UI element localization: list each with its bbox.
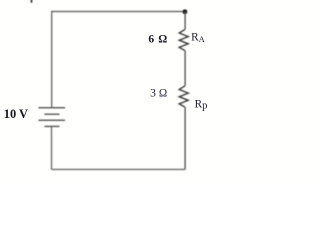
svg-text:10 V: 10 V [4,107,28,121]
wire: bottom horizontal [52,168,186,170]
wire: left vertical (top corner down to battery +) [51,12,53,108]
wire: RA to RP [184,51,186,86]
node: top junction [183,9,188,14]
wire: RP to bottom corner [184,107,186,169]
cropped text artifact (top edge) [31,0,33,3]
svg-text:Rp: Rp [195,98,208,111]
svg-text:Ω: Ω [158,33,167,45]
svg-text:RA: RA [191,32,206,44]
svg-text:6: 6 [148,33,154,45]
battery V1: plate 2 (short) [44,113,59,115]
battery V1: plate 3 (long) [39,119,66,121]
wire: battery - down to bottom corner [51,126,53,169]
svg-text:3: 3 [150,87,156,100]
battery V1: plate 1 (long, +) [39,107,66,109]
svg-text:Ω: Ω [159,88,167,100]
wire: node to resistor RA [184,12,186,30]
resistor RP (zigzag) [179,86,188,107]
battery V1: plate 4 (short, -) [44,125,59,127]
wire: top horizontal [51,11,185,13]
resistor RA (zigzag) [179,29,188,50]
